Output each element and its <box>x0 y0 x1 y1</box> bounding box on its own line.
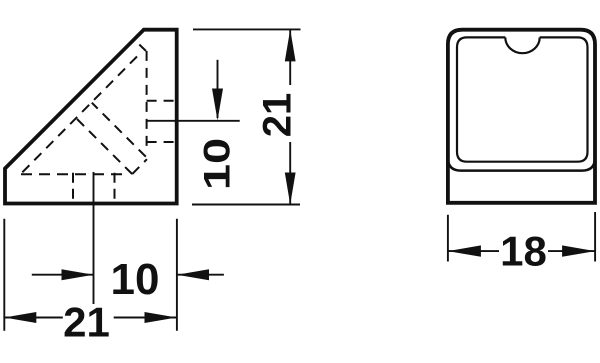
hidden jog dash at apex <box>139 45 146 51</box>
extension line top for 21 <box>193 28 301 30</box>
centerline of right-flange hole <box>147 120 240 122</box>
svg-text:18: 18 <box>500 228 547 275</box>
arrowhead up <box>285 29 296 61</box>
hidden 45deg cap-hole upper side <box>92 103 146 157</box>
hidden inner bottom surface dashed horizontal <box>21 173 127 175</box>
dimension 10 (top to hole center) leader shaft <box>217 60 219 118</box>
right view inner rounded square with notch <box>457 37 588 161</box>
svg-text:21: 21 <box>63 299 110 346</box>
extension line left for bottom 21 <box>3 219 5 331</box>
hidden 45deg cap-hole lower side <box>77 119 133 175</box>
arrowhead down <box>212 89 223 121</box>
dimension 21 bottom line <box>4 317 63 319</box>
hidden hole right edge through bottom flange <box>114 173 116 204</box>
hidden cap-hole end edge <box>132 159 147 174</box>
hidden vertical dashed line (inner face of right flange) <box>146 51 148 147</box>
left view outer profile <box>5 30 177 204</box>
arrowhead down <box>285 173 296 205</box>
extension line right for 18 <box>594 212 596 262</box>
notch semicircle <box>505 37 539 53</box>
centerline of bottom-flange hole <box>93 172 95 304</box>
extension line left for 18 <box>447 215 449 262</box>
dimension 10 bottom left arrow line <box>32 274 94 276</box>
dimension 10 bottom right arrow line <box>177 274 224 276</box>
hidden hole bottom edge through right flange <box>147 141 177 143</box>
dimension 18 line <box>448 250 499 252</box>
svg-text:21: 21 <box>256 93 300 138</box>
hidden hole top edge through right flange <box>147 100 177 102</box>
dimension line 21 vertical <box>289 29 291 85</box>
extension line right for bottom dims <box>176 219 178 331</box>
hidden hole left edge through bottom flange <box>72 173 74 204</box>
svg-text:10: 10 <box>196 138 237 190</box>
svg-text:10: 10 <box>111 255 160 304</box>
extension line bottom for 21 <box>192 204 300 206</box>
hidden inner sloped surface dashed diagonal <box>21 57 138 175</box>
right view outer silhouette <box>448 30 595 203</box>
right view face bottom edge <box>448 158 595 171</box>
